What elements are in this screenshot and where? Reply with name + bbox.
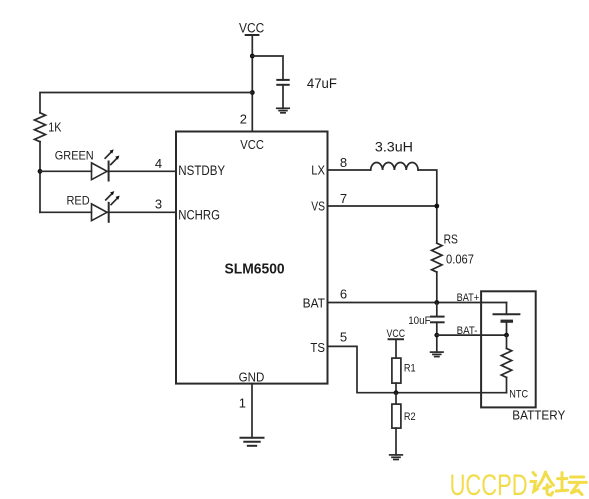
junction BAT- / C2 (434, 333, 439, 338)
svg-text:8: 8 (340, 155, 347, 170)
svg-text:1: 1 (239, 395, 246, 410)
svg-text:BATTERY: BATTERY (512, 408, 565, 423)
junction VCC rail / LED rail (250, 90, 255, 95)
svg-text:GREEN: GREEN (55, 148, 94, 162)
power symbol VCC (divider) (387, 328, 406, 340)
wire VCC symbol down to pin 2 (251, 35, 253, 132)
wire pin 8 LX to inductor (328, 169, 371, 171)
svg-text:R1: R1 (404, 363, 416, 375)
wire green LED cathode to pin 4 (107, 170, 176, 172)
wire pin 7 VS to node (328, 205, 437, 207)
svg-text:6: 6 (340, 286, 347, 301)
LED D2 RED (92, 191, 120, 222)
wire VCC rail to resistor 1K (40, 93, 252, 113)
wire junction to capacitor C1 (252, 56, 283, 80)
resistor 1K (35, 113, 46, 142)
wire C1 to ground (282, 85, 284, 109)
svg-text:1K: 1K (48, 120, 61, 135)
wire to green LED anode (40, 170, 92, 172)
svg-text:TS: TS (310, 340, 325, 355)
svg-text:4: 4 (155, 156, 162, 171)
resistor RS (432, 243, 442, 272)
resistor R1 (392, 358, 401, 383)
junction VCC / C1 branch (250, 54, 255, 59)
resistor R2 (392, 404, 401, 428)
wire cell to BAT- junction (506, 321, 508, 335)
svg-text:GND: GND (239, 369, 265, 384)
junction BAT / RS / C2 (434, 300, 439, 305)
svg-text:UCCPD: UCCPD (450, 469, 528, 499)
svg-text:RS: RS (444, 232, 459, 247)
wire R2 to ground (395, 428, 397, 455)
battery box (481, 291, 536, 407)
wire VCC to R1 (395, 339, 397, 358)
watermark CJK glyph tan (556, 473, 586, 495)
svg-text:VCC: VCC (239, 20, 264, 35)
junction VS / inductor node (434, 204, 439, 209)
svg-text:NCHRG: NCHRG (178, 207, 220, 222)
wire LED rail to red LED anode (40, 211, 92, 213)
svg-text:47uF: 47uF (307, 75, 337, 91)
svg-text:NTC: NTC (509, 389, 528, 401)
svg-text:2: 2 (240, 111, 247, 126)
svg-text:10uF: 10uF (408, 315, 431, 327)
svg-text:5: 5 (340, 330, 347, 345)
ground (C1) (277, 108, 289, 113)
svg-text:LX: LX (311, 163, 325, 178)
ground (pin 1) (241, 438, 264, 446)
wire RS to BAT node (436, 272, 438, 302)
svg-text:NSTDBY: NSTDBY (178, 163, 225, 178)
thermistor NTC (501, 348, 511, 377)
battery cell BT1 (494, 314, 520, 321)
svg-text:BAT+: BAT+ (457, 292, 480, 304)
svg-text:3.3uH: 3.3uH (375, 139, 413, 155)
wire C2 to ground (436, 322, 438, 352)
capacitor C2 10uF (431, 317, 444, 323)
wire junction to NTC (506, 335, 508, 348)
watermark CJK glyph lun (531, 472, 554, 495)
svg-text:SLM6500: SLM6500 (225, 262, 285, 278)
wire BAT- to battery (437, 334, 507, 336)
svg-text:RED: RED (67, 194, 90, 208)
svg-text:VS: VS (311, 199, 325, 214)
svg-text:3: 3 (155, 197, 162, 212)
wire BAT+ into battery cell (506, 303, 508, 315)
wire pin 6 BAT to battery (328, 302, 507, 304)
power symbol VCC (top) (239, 20, 264, 35)
wire red LED cathode to pin 3 (107, 211, 176, 213)
junction LED rail / green LED (38, 169, 43, 174)
capacitor C1 47uF (277, 80, 288, 85)
svg-text:BAT: BAT (303, 296, 325, 311)
wire R1 to divider node (395, 383, 397, 393)
wire BAT node to capacitor C2 (436, 303, 438, 317)
svg-text:VCC: VCC (240, 137, 264, 152)
IC U1 SLM6500 body (176, 132, 328, 384)
LED D1 GREEN (92, 149, 120, 180)
junction battery / NTC (504, 333, 509, 338)
ground (R2) (390, 455, 403, 460)
svg-text:R2: R2 (404, 411, 416, 423)
wire pin 5 TS to divider (328, 346, 507, 392)
inductor L1 3.3uH (371, 163, 418, 170)
wire NTC to TS net (506, 377, 508, 392)
wire inductor to RS node (418, 170, 437, 243)
wire node to R2 (395, 393, 397, 404)
watermark UCCPD forum (450, 469, 528, 499)
junction R1 / R2 / TS (394, 390, 399, 395)
svg-text:BAT-: BAT- (457, 325, 478, 337)
svg-text:7: 7 (340, 191, 347, 206)
ground (C2) (431, 352, 443, 357)
svg-text:0.067: 0.067 (446, 252, 474, 267)
wire pin 1 GND to ground (251, 384, 253, 438)
wire 1K to LED rail (39, 142, 41, 213)
